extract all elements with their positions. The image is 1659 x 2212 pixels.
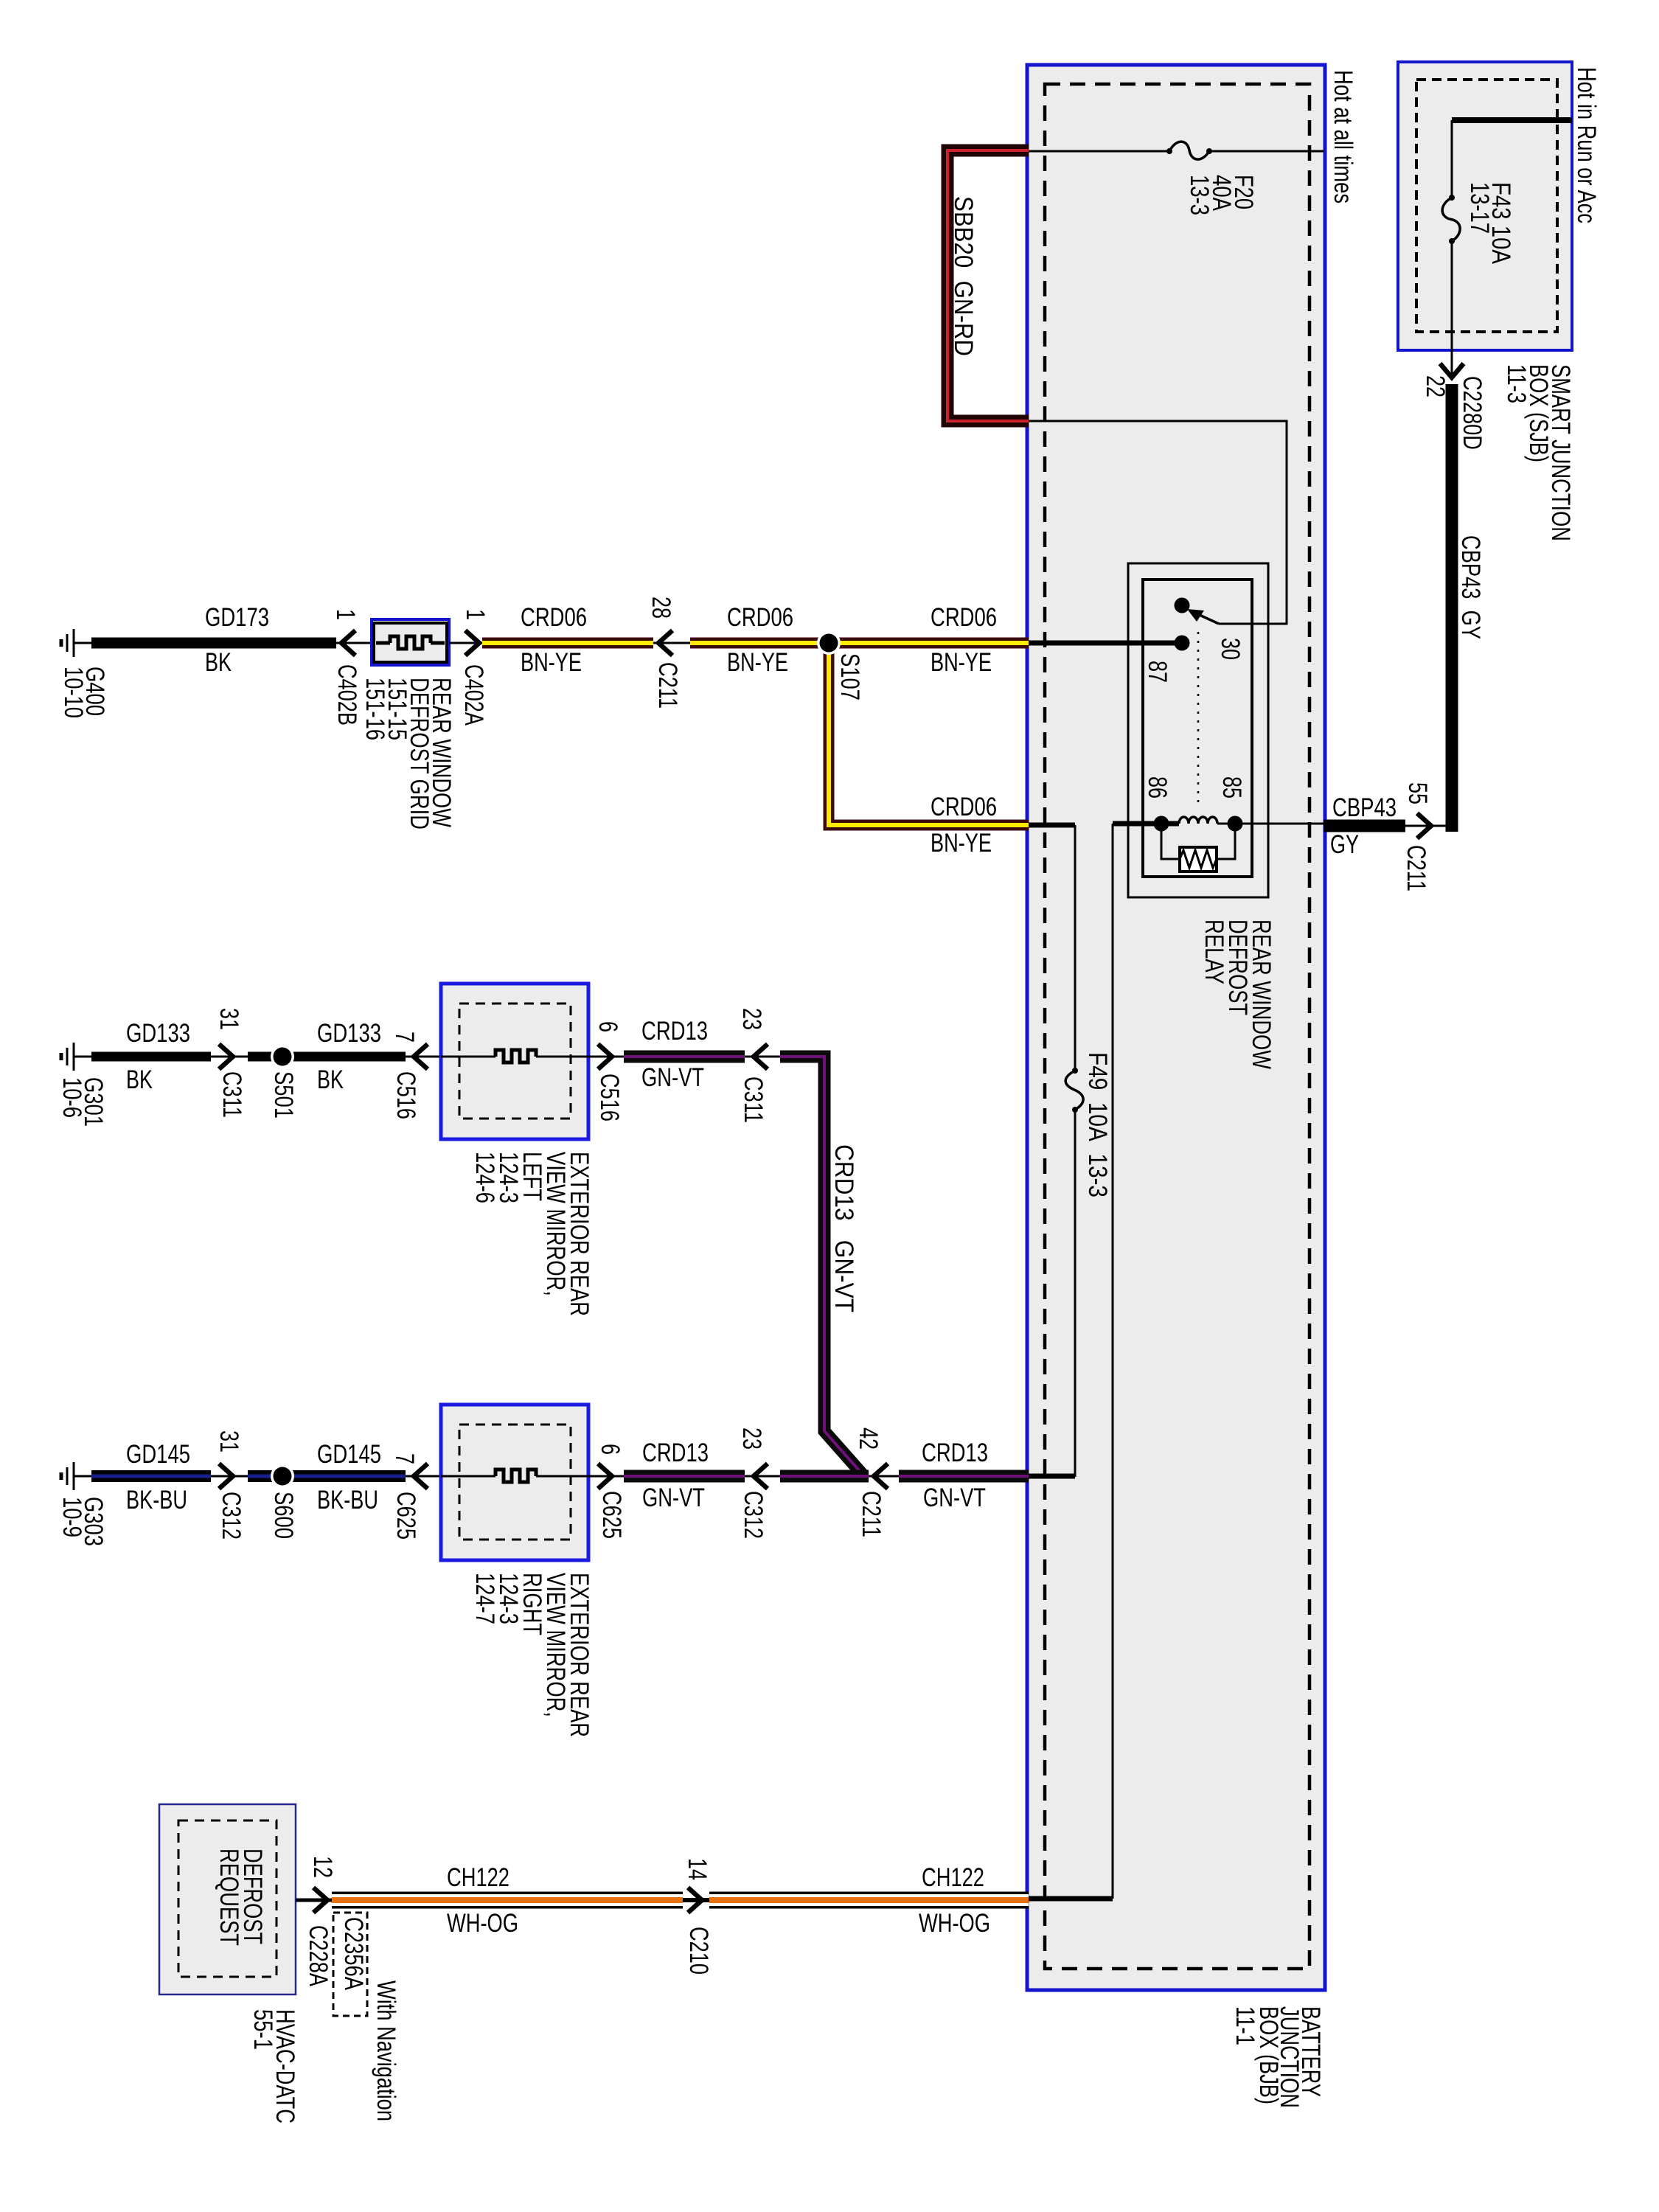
svg-text:BK-BU: BK-BU [126,1486,187,1514]
relay suppression resistor box [1180,847,1217,872]
exterior rear view mirror right dashed inner [459,1425,571,1540]
svg-text:GN-VT: GN-VT [642,1484,705,1512]
svg-text:C211: C211 [857,1491,886,1537]
relay resistor zigzag [1180,850,1217,868]
relay coil pin 85 dot [1228,816,1243,832]
svg-text:124-7: 124-7 [470,1573,499,1624]
svg-text:55: 55 [1403,782,1432,804]
svg-text:CRD06: CRD06 [931,603,997,632]
wire GD145 BK-BU segment 1 [91,1470,211,1482]
svg-text:22: 22 [1421,375,1450,397]
connector arrow pin 6 C625 [598,1464,612,1489]
svg-text:1: 1 [461,609,490,620]
svg-text:C2280D: C2280D [1458,376,1486,450]
wire thin at C516 7 [406,1056,441,1058]
connector arrow pin 22 C2280D [1440,364,1464,378]
svg-text:With Navigation: With Navigation [372,1980,400,2121]
svg-text:10-6: 10-6 [58,1077,86,1118]
connector arrow pin 1 C402B [341,630,355,655]
grid box inner border [374,623,447,662]
wire CRD06 BN-YE to relay coil branch [829,643,1029,825]
svg-text:BN-YE: BN-YE [931,829,992,858]
relay coil wire right [1217,823,1324,825]
svg-text:GD145: GD145 [317,1440,381,1469]
wire CH122 WH-OG segment 2 [709,1892,1029,1909]
svg-text:C311: C311 [218,1071,246,1118]
svg-text:CRD06: CRD06 [521,603,587,632]
connector arrow pin 28 C211 [658,630,672,655]
wire BJB entry row4 to riser [1029,1896,1113,1902]
svg-text:1: 1 [331,609,360,620]
wire BJB entry row3 to F49 [1029,1474,1075,1479]
wire thin at C311 23 [745,1056,780,1058]
svg-text:C211: C211 [1402,845,1430,891]
splice S600 [271,1464,294,1488]
svg-text:C312: C312 [739,1491,768,1539]
mirror left element wire [441,1056,495,1058]
svg-text:GY: GY [1330,830,1359,859]
svg-text:WH-OG: WH-OG [447,1909,518,1938]
svg-text:BK-BU: BK-BU [317,1486,378,1514]
relay coil wire left [1113,821,1179,827]
svg-text:55-1: 55-1 [248,2009,277,2050]
splice S107 [817,631,841,655]
svg-text:RELAY: RELAY [1200,919,1228,984]
wire thin at C211 28 [653,642,690,644]
exterior rear view mirror left box [441,984,588,1139]
svg-text:GN-VT: GN-VT [641,1063,704,1092]
wire CRD13 GN-VT row3 segment3 [899,1470,1029,1483]
svg-text:C311: C311 [739,1077,768,1123]
mirror right grid element [495,1470,536,1482]
rear window defrost grid box [372,619,449,665]
svg-text:CRD13: CRD13 [922,1439,988,1467]
svg-text:CRD13: CRD13 [641,1017,708,1046]
relay pin 87 contact dot [1175,636,1190,651]
svg-text:13-17: 13-17 [1465,182,1494,234]
svg-text:CH122: CH122 [922,1863,984,1892]
svg-text:S501: S501 [269,1071,298,1119]
svg-text:87: 87 [1143,661,1172,683]
connector arrow pin 55 C211 [1417,813,1431,838]
exterior rear view mirror right box [441,1405,588,1560]
wire CRD13 GN-VT row2 segment1 [624,1051,745,1063]
connector arrow pin 12 C228A [313,1888,327,1913]
svg-text:CRD06: CRD06 [931,793,997,821]
svg-text:85: 85 [1217,776,1246,799]
relay blade arrowhead [1187,609,1204,622]
svg-text:WH-OG: WH-OG [919,1909,990,1938]
svg-text:CBP43: CBP43 [1332,793,1397,822]
svg-text:C211: C211 [653,662,682,709]
wire thin at C211 55 [1405,825,1446,827]
svg-text:30: 30 [1216,638,1245,660]
svg-text:7: 7 [390,1032,419,1043]
grid element symbol [376,641,390,645]
svg-text:C402B: C402B [333,664,361,726]
wire CRD06 BN-YE segment 1 [482,638,653,649]
connector arrow pin 31 C311 [219,1044,233,1069]
wire F20 to right edge [1209,150,1324,153]
svg-text:CH122: CH122 [447,1863,509,1892]
wire BJB entry to F49 [1029,823,1075,828]
svg-text:BK: BK [317,1065,344,1094]
svg-text:C210: C210 [684,1927,713,1975]
smart junction box SJB outline [1398,62,1572,350]
wire thin at C228A [296,1899,332,1902]
wire thin at C402B [336,642,372,644]
wire CRD06 BN-YE segment 2 [690,638,1029,649]
connector arrow pin 14 C210 [688,1888,702,1913]
relay coil pin 86 dot [1154,816,1169,832]
wire CH122 riser to coil 86 [1112,824,1114,1899]
svg-text:11-1: 11-1 [1231,2006,1259,2045]
svg-text:GD133: GD133 [126,1019,190,1048]
svg-text:13-3: 13-3 [1185,175,1214,215]
connector arrow pin 42 C211 [874,1464,888,1489]
svg-text:GD133: GD133 [317,1019,381,1048]
svg-text:SBB20 GN-RD: SBB20 GN-RD [949,196,978,356]
svg-text:S107: S107 [835,653,864,700]
wire SBB20 to relay pin 30 [1029,421,1287,624]
svg-text:F49 10A 13-3: F49 10A 13-3 [1083,1052,1112,1197]
ground G303 [61,1462,91,1490]
wire GD173 BK [91,638,336,649]
wire GD145 BK-BU segment 2 [248,1470,406,1482]
wire F49 riser upper [1074,825,1077,1071]
svg-text:C312: C312 [217,1492,246,1540]
mirror right element wire [441,1475,495,1478]
fuse F43 10A [1449,195,1455,201]
wire F49 riser lower [1074,1110,1077,1477]
svg-text:BN-YE: BN-YE [521,648,582,677]
wire thin at C210 [683,1898,709,1902]
relay switch blade [1192,611,1219,624]
svg-text:CRD06: CRD06 [727,603,793,632]
relay pin 87 wire [1029,641,1182,646]
svg-text:BK: BK [126,1065,153,1094]
wire thin at C211 42 [869,1475,899,1478]
svg-text:31: 31 [215,1008,243,1030]
wire CRD13 GN-VT row3 segment2 [780,1470,869,1483]
svg-text:23: 23 [737,1427,766,1450]
connector C2356A dashed box [333,1913,367,2016]
connector arrow pin 23 C312 [754,1464,768,1489]
SJB hot feed bus [1452,117,1572,123]
wire F43 output [1451,241,1453,375]
wire CH122 WH-OG segment 1 [332,1892,683,1909]
SJB inner dashed border [1416,80,1557,332]
connector arrow pin 7 C625 [414,1464,428,1489]
relay REAR WINDOW DEFROST RELAY outer box [1128,563,1268,897]
svg-text:23: 23 [737,1008,766,1030]
svg-text:CBP43 GY: CBP43 GY [1456,535,1485,639]
connector arrow pin 7 C516 [414,1044,428,1069]
ground G400 [61,629,91,657]
relay actuation dotted line [1197,632,1200,806]
svg-text:Hot in Run or Acc: Hot in Run or Acc [1572,67,1601,223]
svg-text:C402A: C402A [459,664,488,726]
svg-text:7: 7 [390,1453,419,1464]
wire GD133 BK segment 2 [248,1052,406,1062]
DEFROST REQUEST dashed inner [178,1820,276,1977]
connector arrow pin 23 C311 [754,1044,768,1069]
wire thin at C312 [211,1475,248,1478]
wire GD133 BK segment 1 [91,1052,211,1062]
svg-text:C625: C625 [597,1491,626,1539]
svg-text:GD173: GD173 [205,603,269,632]
svg-text:12: 12 [308,1856,337,1878]
wire BJB feed F20 [1029,150,1169,153]
wire thin at C311 [211,1056,248,1058]
exterior rear view mirror left dashed inner [459,1004,571,1119]
svg-text:11-3: 11-3 [1502,364,1531,403]
relay suppression resistor leads [1161,824,1235,859]
svg-text:REQUEST: REQUEST [215,1848,243,1946]
connector arrow pin 31 C312 [219,1464,233,1489]
svg-text:S600: S600 [269,1492,298,1539]
ground G301 [61,1043,91,1071]
BJB inner dashed border [1045,84,1310,1969]
svg-text:Hot at all times: Hot at all times [1329,70,1357,204]
svg-text:10-9: 10-9 [58,1497,86,1537]
relay inner box [1143,580,1252,877]
wire thin at C402A [449,642,482,644]
svg-text:10-10: 10-10 [59,667,88,718]
svg-text:86: 86 [1143,776,1172,799]
fuse F49 10A [1072,1068,1078,1074]
wire SBB20 GN-RD loop [947,150,1029,421]
fuse F20 40A [1166,148,1172,154]
mirror left grid element [495,1050,536,1062]
battery junction box BJB outline [1027,65,1325,1990]
wire thin at C516 6 [588,1056,624,1058]
svg-text:6: 6 [594,1021,622,1032]
relay coil [1179,817,1217,824]
HVAC-DATC DEFROST REQUEST box [159,1804,296,1994]
wire thin at C312 23 [745,1475,780,1478]
svg-text:124-6: 124-6 [470,1152,499,1203]
svg-text:GN-VT: GN-VT [923,1484,986,1512]
svg-text:6: 6 [596,1444,625,1455]
svg-text:14: 14 [683,1858,712,1880]
svg-text:BK: BK [205,648,232,677]
svg-text:GD145: GD145 [126,1440,190,1469]
svg-text:C516: C516 [392,1071,420,1119]
svg-text:C2356A: C2356A [339,1917,368,1991]
wire thin at C625 6 [588,1475,624,1478]
relay common contact dot [1175,598,1190,613]
svg-text:C228A: C228A [304,1925,333,1986]
svg-text:CRD13: CRD13 [642,1439,709,1467]
wire CBP43 GY vertical from SJB [1446,384,1458,832]
svg-text:C625: C625 [392,1492,420,1540]
connector arrow pin 6 C516 [598,1044,612,1069]
splice S501 [271,1045,294,1068]
svg-text:42: 42 [854,1427,883,1450]
wire thin at C625 7 [406,1475,441,1478]
wire CRD13 GN-VT row3 segment1 [624,1470,745,1483]
wire CBP43 GY horizontal [1324,820,1405,832]
svg-text:CRD13 GN-VT: CRD13 GN-VT [829,1144,858,1312]
svg-text:BN-YE: BN-YE [727,648,788,677]
wire SJB fuse feed [1451,120,1453,198]
svg-text:31: 31 [215,1430,243,1453]
svg-text:28: 28 [647,597,675,619]
svg-text:BN-YE: BN-YE [931,648,992,677]
wire CRD13 GN-VT vertical run [780,1057,864,1476]
connector arrow pin 1 C402A [465,630,479,655]
svg-text:151-16: 151-16 [361,678,389,740]
svg-text:C516: C516 [595,1074,624,1121]
